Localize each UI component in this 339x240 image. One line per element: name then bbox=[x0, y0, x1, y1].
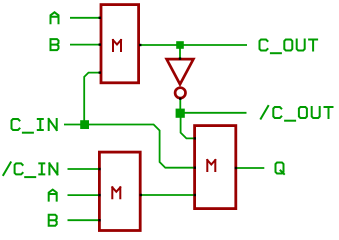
wire Q output bbox=[235, 167, 265, 169]
pin dot U3 input 2 bbox=[194, 167, 196, 169]
wire A top input bbox=[70, 17, 100, 19]
pin dot U1 output bbox=[139, 44, 141, 46]
wire inverter output bbox=[179, 99, 181, 110]
majority gate U1 label M bbox=[113, 40, 121, 51]
pin dot U1 input B bbox=[99, 43, 101, 45]
wire C_IN net bbox=[64, 125, 196, 168]
majority gate U1 box bbox=[101, 5, 139, 83]
pin dot U3 input 3 bbox=[194, 194, 196, 196]
pin dot U3 input 1 bbox=[194, 137, 196, 139]
wire /C_OUT net bbox=[180, 112, 247, 114]
label /C_OUT bbox=[261, 106, 333, 121]
pin dot U2 input 2 bbox=[98, 194, 100, 196]
pin dot U2 output bbox=[140, 194, 142, 196]
label B top bbox=[51, 39, 59, 50]
label B bottom bbox=[49, 215, 57, 226]
majority gate U2 label M bbox=[112, 187, 120, 198]
wire /C_IN input bbox=[68, 168, 100, 170]
wire B bottom input bbox=[68, 219, 100, 221]
wire B top input bbox=[70, 44, 100, 46]
inverter U4 triangle bbox=[167, 59, 194, 84]
pin dot inverter output bbox=[179, 98, 181, 100]
majority gate U2 box bbox=[99, 152, 140, 230]
label A top bbox=[51, 12, 59, 23]
majority gate U3 box bbox=[195, 126, 236, 209]
pin dot U2 input 3 bbox=[98, 219, 100, 221]
pin dot inverter input bbox=[179, 57, 181, 59]
label Q bbox=[276, 163, 285, 175]
label C_IN bbox=[12, 119, 57, 133]
pin dot U1 input A bbox=[99, 17, 101, 19]
majority gate U3 label M bbox=[207, 160, 215, 171]
junction C_IN node bbox=[80, 120, 89, 129]
pin dot U3 output bbox=[235, 167, 237, 169]
label C_OUT bbox=[260, 40, 318, 54]
junction C_OUT node bbox=[176, 41, 184, 49]
label A bottom bbox=[49, 190, 57, 201]
junction /C_OUT node bbox=[176, 109, 185, 118]
wire C_IN branch to U1 third input bbox=[84, 73, 101, 125]
pin dot U2 input 1 bbox=[98, 168, 100, 170]
wire U2 output to U3 bbox=[141, 194, 196, 196]
label /C_IN bbox=[3, 162, 57, 177]
wire A bottom input bbox=[68, 194, 100, 196]
pin dot U1 input C bbox=[99, 71, 101, 73]
inverter U4 bubble bbox=[175, 88, 185, 98]
wire inverter input bbox=[179, 45, 181, 59]
wire /C_OUT to U3 input bbox=[181, 113, 196, 138]
wire C_OUT net bbox=[139, 44, 247, 46]
